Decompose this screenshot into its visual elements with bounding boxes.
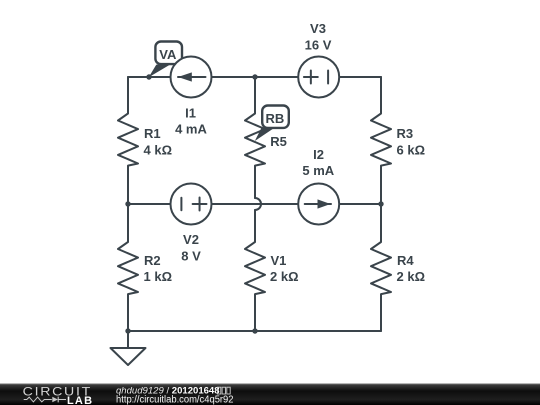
svg-text:LAB: LAB (67, 395, 93, 405)
node dot at VA probe attachment (146, 74, 151, 79)
wire bottom horizontal (128, 330, 381, 332)
wire middle-left horizontal (128, 203, 170, 205)
svg-text:4 kΩ: 4 kΩ (144, 142, 173, 157)
wire top-left horizontal (128, 76, 170, 78)
svg-text:R4: R4 (397, 253, 414, 268)
svg-text:8 V: 8 V (181, 249, 201, 264)
svg-text:R1: R1 (144, 126, 161, 141)
svg-text:RB: RB (266, 111, 285, 126)
probe VA (149, 42, 182, 78)
svg-text:I2: I2 (313, 147, 324, 162)
resistor R4 (371, 204, 391, 331)
svg-text:http://circuitlab.com/c4q5r92: http://circuitlab.com/c4q5r92 (116, 395, 234, 405)
svg-text:1 kΩ: 1 kΩ (144, 269, 173, 284)
missing-glyph boxes (217, 387, 230, 394)
attribution line 1 (116, 386, 234, 405)
voltage source V3 (298, 57, 339, 98)
wire top middle horizontal (212, 76, 298, 78)
resistor R5 (245, 77, 265, 198)
resistor R2 (118, 204, 138, 331)
wire hop (no connection) on middle vertical (255, 198, 261, 210)
ground (111, 331, 146, 365)
voltage source V2 (171, 184, 212, 225)
probe RB (255, 106, 289, 142)
svg-text:I1: I1 (185, 106, 196, 121)
svg-text:2 kΩ: 2 kΩ (270, 269, 299, 284)
svg-text:V3: V3 (310, 21, 326, 36)
svg-text:VA: VA (159, 47, 177, 62)
node at bottom-left junction (125, 328, 130, 333)
current source I2 (298, 184, 339, 225)
resistor V1 (245, 210, 265, 331)
svg-text:R5: R5 (270, 134, 287, 149)
svg-text:R2: R2 (144, 253, 161, 268)
resistor R1 (118, 77, 138, 204)
wire top-right horizontal with corner down (340, 76, 381, 78)
node at middle-right junction (378, 201, 383, 206)
svg-text:2 kΩ: 2 kΩ (397, 269, 426, 284)
current source I1 (171, 57, 212, 98)
node at top middle junction (252, 74, 257, 79)
node at middle-left junction (125, 201, 130, 206)
svg-text:R3: R3 (397, 126, 414, 141)
svg-text:V2: V2 (183, 232, 199, 247)
svg-text:6 kΩ: 6 kΩ (397, 142, 426, 157)
svg-text:16 V: 16 V (305, 37, 332, 52)
wire middle-right horizontal (340, 203, 381, 205)
svg-text:4 mA: 4 mA (175, 122, 207, 137)
svg-text:V1: V1 (271, 253, 287, 268)
wire middle horizontal between V2 and I2 (212, 203, 298, 205)
svg-text:5 mA: 5 mA (302, 163, 334, 178)
node at bottom middle junction (252, 328, 257, 333)
CircuitLab logo (23, 385, 94, 405)
resistor R3 (371, 77, 391, 204)
